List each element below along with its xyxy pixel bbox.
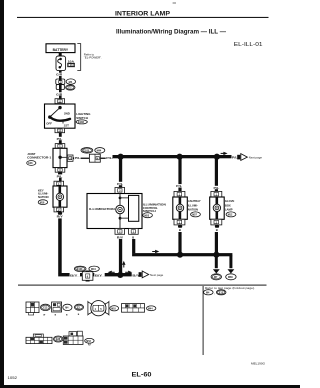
svg-text:B/Y: B/Y — [132, 273, 139, 277]
wire illumination R/Y down — [119, 239, 122, 275]
svg-text:E103: E103 — [77, 268, 83, 271]
battery — [46, 44, 75, 53]
ground drop 1 — [213, 256, 220, 273]
connector label M53 pinout — [85, 338, 94, 345]
svg-text:B: B — [55, 315, 57, 317]
glove box lamp label M12 — [225, 199, 236, 217]
connector label E2 — [66, 85, 75, 90]
glove box lamp — [210, 197, 225, 219]
svg-text:1ST: 1ST — [64, 123, 70, 127]
illumination pin 2 — [115, 229, 125, 235]
svg-text:10A: 10A — [68, 59, 75, 63]
connector E28 pinout — [26, 334, 52, 344]
wire label B/Y — [70, 273, 80, 278]
svg-text:SWITCH: SWITCH — [76, 116, 88, 120]
svg-text:Refer to last page (Foldout pa: Refer to last page (Foldout page). — [205, 286, 255, 290]
main bus P/L — [113, 155, 232, 158]
junction dot glove box ground — [213, 252, 219, 258]
joint connector-1 label E28 — [27, 152, 52, 165]
svg-text:E108: E108 — [78, 121, 84, 124]
svg-text:P/L: P/L — [57, 175, 63, 179]
arrow marker right on ground bus B — [152, 250, 159, 253]
wire label G/R — [56, 92, 63, 96]
joint connector-1 — [53, 148, 67, 167]
svg-text:NATION: NATION — [38, 195, 49, 199]
connector M4/E2 — [56, 78, 65, 89]
next page connector arrow top — [237, 154, 262, 161]
key illumination pin 2 — [54, 207, 64, 212]
svg-text:Next page: Next page — [150, 273, 164, 277]
svg-text:B/Y: B/Y — [95, 274, 102, 278]
svg-text:P/L: P/L — [214, 186, 220, 190]
wire glove box feed from bus — [213, 158, 220, 191]
svg-text:M44: M44 — [91, 268, 96, 271]
svg-text:E28: E28 — [28, 162, 33, 165]
junction dot ashtray — [177, 154, 183, 160]
svg-text:NATION: NATION — [188, 208, 198, 212]
svg-text:INTERIOR LAMP: INTERIOR LAMP — [115, 11, 170, 18]
wire illumination B down — [132, 239, 135, 253]
junction dot ground bus — [117, 272, 123, 278]
key illumination label M18 — [38, 189, 49, 205]
svg-text:P/L: P/L — [57, 137, 63, 141]
wire glove box down B — [215, 225, 219, 255]
ashtray illumination lamp — [173, 197, 188, 219]
svg-text:1052: 1052 — [8, 375, 18, 380]
wire illumination feed from bus — [117, 158, 124, 187]
fuse 10A — [56, 56, 66, 71]
svg-text:BOX: BOX — [225, 204, 231, 208]
fuse number 13 — [68, 63, 75, 67]
arrow marker on main bus — [221, 152, 228, 155]
junction dot ashtray ground — [177, 252, 183, 258]
ground connector label M7 — [211, 274, 221, 280]
wire label G/R — [56, 73, 63, 77]
ground connector label M66 — [226, 274, 236, 280]
connector label M4 — [66, 79, 75, 84]
connector label E103 on ground bus — [74, 266, 86, 271]
key illumination lamp — [53, 186, 67, 207]
arrow marker up on R/Y wire — [122, 261, 125, 268]
wire ashtray down B — [178, 225, 182, 255]
svg-text:OFF: OFF — [46, 122, 52, 126]
note refer to EL-POWER — [77, 44, 102, 71]
wire switch to joint connector — [59, 133, 62, 144]
svg-text:ILLUMINATION: ILLUMINATION — [89, 207, 115, 211]
svg-text:P/L: P/L — [117, 182, 123, 186]
joint connector-1 pin 2 — [67, 155, 75, 161]
ashtray illumination label M57 — [188, 199, 201, 217]
svg-text:P/L: P/L — [106, 156, 112, 160]
svg-text:ASHTRAY: ASHTRAY — [188, 199, 201, 203]
svg-text:BATTERY: BATTERY — [53, 48, 69, 52]
svg-text:M66: M66 — [228, 276, 233, 279]
svg-text:MEL190G: MEL190G — [251, 362, 265, 366]
key illumination pin 1 — [54, 181, 64, 186]
connector label M18 pinout — [110, 306, 119, 311]
connector label M4 pinout — [63, 304, 72, 310]
svg-text:M53: M53 — [86, 341, 91, 343]
svg-text:EL-60: EL-60 — [132, 372, 153, 378]
lighting switch pin 12 — [55, 128, 65, 133]
ground bus B/Y — [58, 273, 132, 276]
wire label B/Y — [94, 273, 104, 278]
wire label P/L — [74, 156, 81, 160]
svg-text:B: B — [66, 315, 68, 317]
svg-text:E13: E13 — [43, 308, 48, 310]
illumination control switch label M53 — [143, 203, 166, 218]
svg-text:M4: M4 — [69, 80, 73, 84]
svg-text:W: W — [43, 315, 45, 317]
svg-text:P/L: P/L — [75, 156, 81, 160]
ground drop 2 — [228, 255, 235, 273]
wire label P/L — [101, 156, 113, 160]
svg-text:E28: E28 — [56, 339, 61, 341]
connector label E13 pinout — [41, 304, 51, 310]
illumination pin 1 — [129, 229, 139, 235]
svg-text:M18: M18 — [40, 201, 45, 204]
ashtray illumination pin 1 — [174, 191, 185, 197]
svg-text:ILLUMI-: ILLUMI- — [188, 204, 198, 208]
ground bus B — [132, 253, 232, 256]
wire label P/L — [56, 137, 63, 141]
joint connector-1 pin 1 — [55, 144, 65, 149]
lighting switch — [45, 104, 76, 128]
svg-text:B: B — [216, 228, 218, 232]
ashtray illumination pin 2 — [174, 219, 185, 225]
svg-text:M44: M44 — [97, 149, 102, 152]
note refer to last page — [205, 286, 255, 290]
svg-text:2ND: 2ND — [64, 111, 70, 115]
connector E13 pinout — [26, 302, 39, 315]
svg-text:R/Y: R/Y — [57, 215, 63, 219]
arrow marker left on ground bus — [108, 271, 115, 274]
svg-text:,: , — [214, 291, 215, 295]
glove box lamp pin 2 — [211, 219, 222, 225]
connector M44 pinout — [122, 304, 145, 313]
svg-text:M18: M18 — [111, 308, 116, 310]
junction dot illumination — [118, 154, 124, 160]
connector label E28 pinout — [54, 336, 63, 342]
lighting switch pin 11 — [55, 99, 65, 104]
joint connector-1 pin 3 — [55, 168, 65, 173]
wire battery to fuse — [59, 53, 62, 57]
wire ashtray feed from bus — [176, 158, 183, 191]
inline connector E103/M44 — [89, 154, 100, 162]
svg-text:Illumination/Wiring Diagram —: Illumination/Wiring Diagram — ILL — — [116, 29, 227, 36]
connector M53 pinout — [63, 331, 83, 344]
svg-text:E13: E13 — [219, 291, 224, 294]
svg-text:P/L: P/L — [176, 184, 182, 188]
svg-text:GLOVE: GLOVE — [225, 199, 235, 203]
wire joint connector to key illumination — [56, 172, 63, 181]
connector M4 pinout — [52, 302, 62, 312]
illumination meter unit — [87, 194, 142, 229]
wire connector to lighting switch — [59, 90, 62, 99]
svg-text:E103: E103 — [83, 149, 89, 152]
svg-text:P/L: P/L — [232, 156, 238, 160]
connector M18 round pinout — [88, 301, 109, 316]
connector label M44 — [95, 148, 105, 154]
svg-text:“EL-POWER”.: “EL-POWER”. — [84, 56, 102, 60]
svg-text:Next page: Next page — [249, 156, 263, 160]
inline connector on ground bus — [82, 271, 93, 282]
junction dot glove box — [214, 154, 220, 160]
illumination pin 3 — [115, 188, 125, 194]
connector label E2 pinout — [75, 304, 84, 310]
glove box lamp pin 1 — [211, 191, 222, 197]
next page connector arrow bottom — [139, 271, 164, 278]
svg-text:M57: M57 — [192, 214, 197, 217]
note connector label E13 — [216, 290, 226, 295]
svg-text:CONNECTOR-1: CONNECTOR-1 — [27, 155, 52, 159]
connector label M44 on ground bus — [89, 266, 99, 271]
svg-text:EL-ILL-01: EL-ILL-01 — [234, 42, 263, 48]
connector color code labels — [43, 314, 80, 316]
svg-text:M53: M53 — [144, 214, 149, 217]
connector label E103 — [81, 148, 93, 154]
connector label M44 pinout — [147, 306, 156, 311]
svg-text:M44: M44 — [148, 307, 153, 310]
arrow marker right on ground bus — [125, 271, 132, 274]
lighting switch label E108 — [76, 112, 91, 124]
svg-text:B/Y: B/Y — [70, 274, 77, 278]
svg-text:B: B — [179, 228, 181, 232]
svg-text:B: B — [78, 314, 80, 316]
wire joint connector to inline connector — [75, 158, 90, 159]
wire key illumination down R/Y — [57, 212, 63, 273]
note connector label M4 — [204, 290, 216, 296]
svg-text:LAMP: LAMP — [225, 208, 233, 212]
svg-text:M12: M12 — [228, 214, 233, 217]
wire fuse to connector M4 — [59, 71, 62, 79]
